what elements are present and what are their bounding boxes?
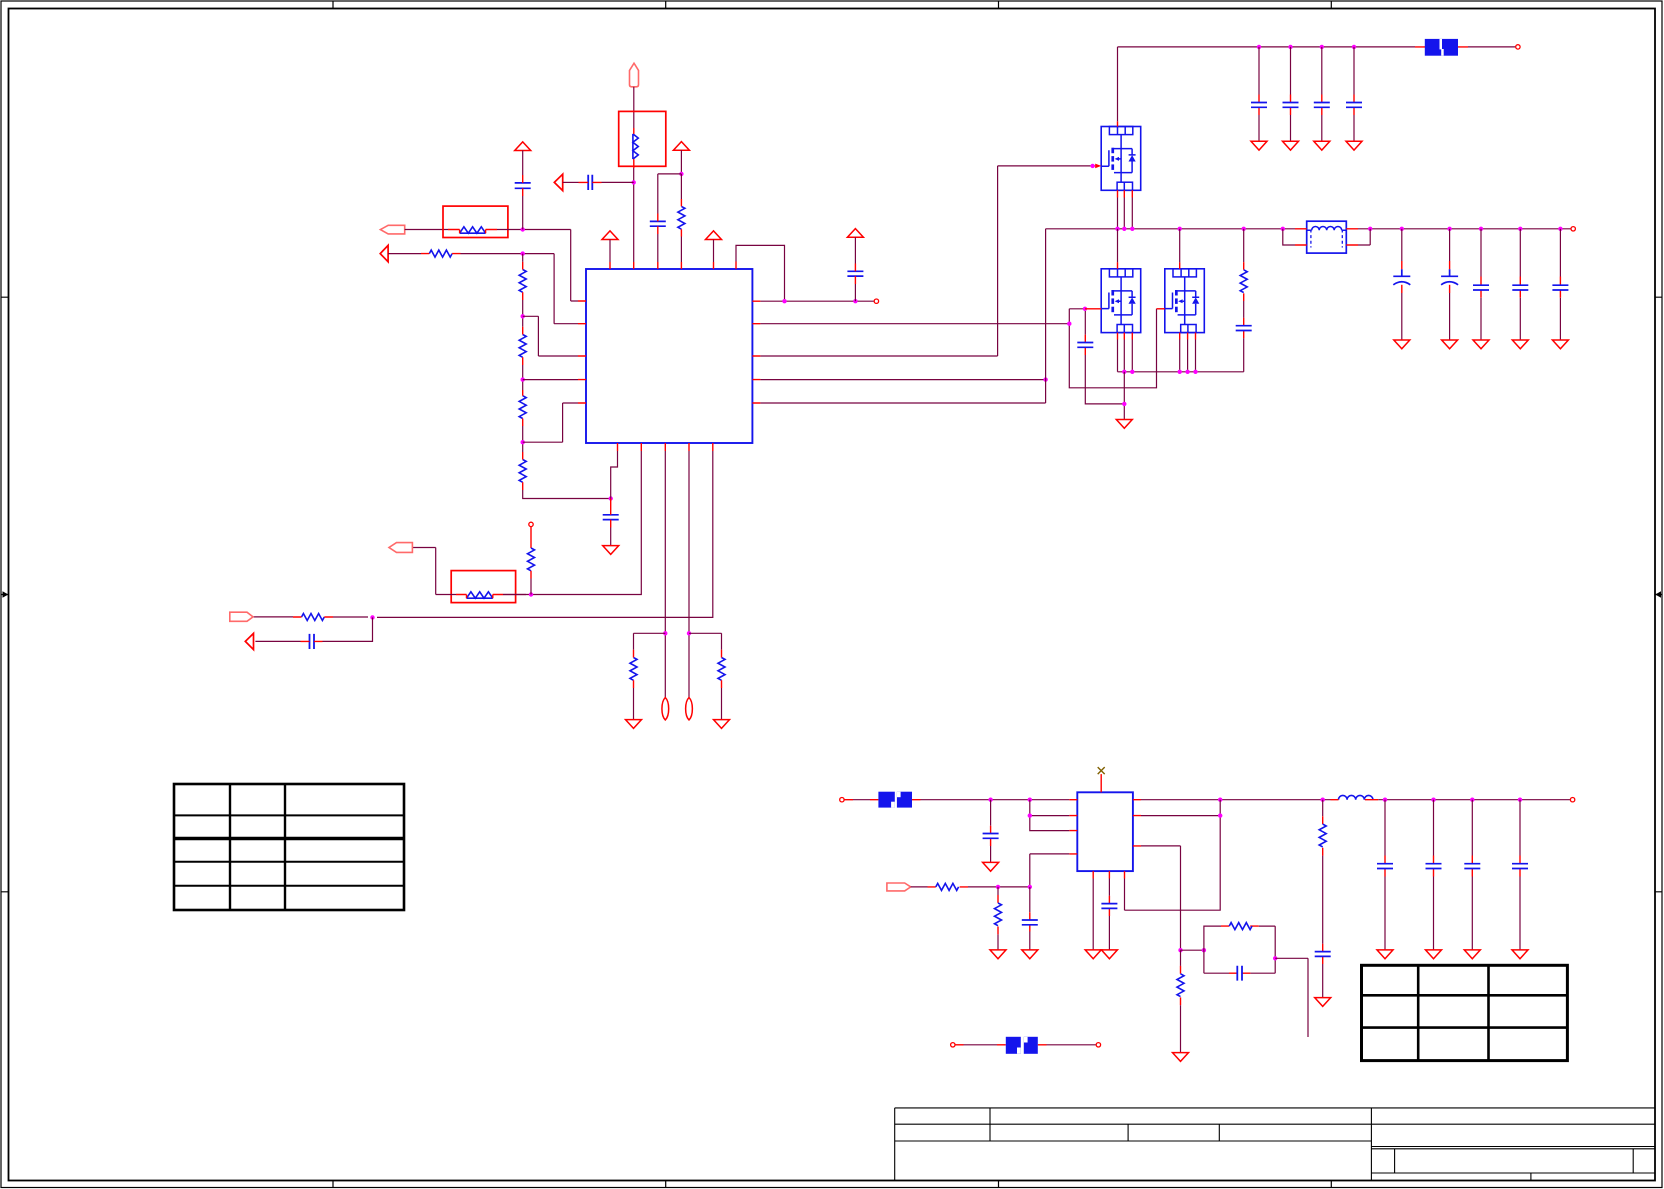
port arrow (wire2 left) — [380, 245, 388, 261]
node junction en cap — [1028, 885, 1032, 889]
capacitor bypass U2 — [1101, 879, 1117, 950]
capacitor C vin (x=990.6) — [983, 800, 999, 863]
node junction gate R2 — [1067, 322, 1071, 326]
stubs — [680, 199, 682, 237]
wire port to C — [563, 181, 579, 183]
wire ladder seg1 — [522, 254, 524, 327]
pin stubs U1 right — [752, 301, 760, 403]
pin stubs U1 top — [610, 262, 736, 270]
node junction b4 — [687, 631, 691, 635]
capacitor C (VIN 2) — [1283, 47, 1299, 141]
capacitor series (fb comp) — [310, 634, 315, 649]
open terminal netlabel left — [951, 1043, 955, 1047]
node junction x531 — [529, 592, 533, 596]
wire Q2 source to bus — [1118, 340, 1133, 372]
node junction fb in — [370, 615, 374, 619]
wire loop pin736 to right — [736, 245, 785, 301]
node junction wire1 — [521, 227, 525, 231]
wire sense pin R2 — [1125, 800, 1221, 911]
port flag (wire1 left) — [380, 225, 404, 234]
ground — [1394, 340, 1410, 349]
ground — [1464, 950, 1480, 959]
wire U2 gnd pin — [1092, 879, 1094, 950]
stub — [844, 799, 853, 801]
ground — [1512, 340, 1528, 349]
ground — [1085, 950, 1101, 959]
wire1 box to corner — [497, 230, 578, 302]
node junctions vout — [1218, 798, 1522, 802]
capacitor C (VIN 3) — [1314, 47, 1330, 141]
ground — [1442, 340, 1458, 349]
stubs Q2 source — [1118, 333, 1133, 340]
wire box to junction and left riser — [412, 548, 526, 595]
ground — [1283, 141, 1299, 150]
node junction cap node — [609, 496, 613, 500]
wire vcc to pin — [609, 240, 611, 263]
capacitor C out4 — [1512, 229, 1528, 340]
capacitor C vout3 — [1464, 800, 1480, 950]
resistor EN series — [928, 883, 969, 890]
terminal pin oval (x=689) — [686, 698, 693, 721]
wire FB pin R3 — [1141, 846, 1181, 950]
inductor L1 box — [1307, 221, 1347, 253]
capacitor C vout4 — [1512, 800, 1528, 950]
wire r to pin — [680, 174, 682, 262]
ground — [983, 862, 999, 871]
component box R (wire1) — [443, 206, 508, 237]
capacitor gate (x=1085.6) — [1077, 311, 1124, 404]
component box R (pwm adj) — [451, 571, 515, 603]
node junction R4 — [1043, 377, 1047, 381]
wire vin to pins 2 3 — [1030, 800, 1070, 831]
resistor ladder R3 — [519, 396, 526, 419]
port arrow (fb comp) — [245, 633, 253, 649]
transistor Q2 package — [1101, 269, 1141, 333]
power VCC arrow (pin 610) — [602, 231, 618, 240]
open terminal (x=531) — [529, 522, 533, 526]
wire en flag to resistor — [911, 886, 928, 888]
port flag (pwm) — [389, 543, 412, 553]
wire en net — [968, 886, 1030, 888]
wire L1 bypass — [1283, 229, 1370, 245]
wire U1 pin R3 gate drive high — [760, 166, 1090, 356]
wire terminal to label — [853, 799, 870, 801]
stubs FB1 — [633, 128, 635, 168]
wire vcc to pin — [713, 240, 715, 263]
node junction RC right — [1273, 956, 1277, 960]
stubs — [522, 175, 524, 196]
stubs Q3 source — [1180, 333, 1196, 340]
stub — [955, 1044, 964, 1046]
wire Q1 drain to VIN rail — [1117, 47, 1119, 121]
ground — [990, 950, 1006, 959]
no-connect X — [1098, 767, 1105, 774]
capacitor (x=657.8) — [650, 221, 666, 226]
terminal pin oval (x=665.3) — [662, 698, 669, 721]
notes table — [1362, 965, 1568, 1060]
gate entry arrow Q1 — [1095, 164, 1101, 169]
capacitor C (series at top) — [588, 175, 592, 190]
wire FB1 to U1 pin — [633, 168, 635, 262]
resistor RC top — [1221, 923, 1259, 930]
stubs — [456, 595, 503, 599]
wire Q2 drain from SW — [1117, 229, 1119, 269]
open terminal SW out — [1571, 227, 1575, 231]
ground power stage — [1116, 420, 1132, 429]
RC network loop — [1204, 926, 1275, 973]
resistor (fb wire) — [302, 614, 325, 621]
ground — [1473, 340, 1489, 349]
node junction vin cap — [988, 798, 992, 802]
wire RC tap — [1275, 958, 1308, 1037]
capacitor C vout1 — [1377, 800, 1393, 950]
ground — [1552, 340, 1568, 349]
stub — [530, 571, 532, 579]
capacitor snubber — [1236, 301, 1252, 372]
wire U1 pin R4 — [760, 379, 1045, 381]
wire branch to pin L5 — [523, 403, 578, 442]
stubs cap — [579, 181, 602, 183]
stubs — [421, 253, 461, 255]
node junction ladder a — [521, 314, 525, 318]
stub nc — [1100, 774, 1102, 784]
wire branch right — [689, 633, 722, 650]
stubs — [610, 499, 612, 528]
resistor sawtooth (wire1) — [460, 227, 486, 233]
node junctions SW bus — [1115, 227, 1562, 231]
stubs — [301, 640, 323, 642]
wire source bus — [1118, 371, 1244, 373]
wire ladder seg2 — [522, 365, 524, 390]
ground — [1173, 1053, 1189, 1062]
wire branch to pin L3 — [523, 316, 578, 356]
wire r to gnd — [721, 688, 723, 720]
resistor (x=681.4) — [678, 206, 685, 229]
node junction gnd — [1122, 402, 1126, 406]
wire vcc down — [854, 237, 856, 263]
wire U1 pin B4 down — [688, 451, 690, 698]
open terminal vout — [1570, 798, 1574, 802]
stub terminal — [530, 527, 532, 548]
node junction RC left — [1202, 948, 1206, 952]
resistor ladder R2 — [519, 335, 526, 358]
resistor snubber — [1240, 229, 1247, 301]
ground (x=721.5) — [714, 720, 730, 729]
node junction gate cap — [1083, 307, 1087, 311]
wire VIN rail top — [1118, 46, 1416, 48]
stubs — [522, 327, 524, 365]
wire gate link Q2 Q3 — [1069, 309, 1156, 388]
wire ladder seg3 — [522, 426, 524, 452]
port flag (fb input) — [230, 612, 253, 621]
stubs Q1 source — [1118, 190, 1133, 197]
ground — [1315, 998, 1331, 1007]
capacitor (x=610.7) — [603, 515, 619, 520]
node junction loop — [782, 299, 786, 303]
node junction on VDD line — [632, 180, 636, 184]
wire ladder bottom to cap node — [523, 490, 611, 499]
stubs — [854, 264, 856, 285]
node junction ladder b — [521, 377, 525, 381]
resistor (wire2) — [429, 250, 452, 257]
wire cap to port arrow — [255, 640, 300, 642]
stubs — [657, 214, 659, 235]
stub label — [870, 799, 921, 801]
wire U1 pin B3 down — [664, 451, 666, 698]
wire U1 pin B5 long feedback — [377, 451, 713, 617]
ground (x=610.7) — [603, 546, 619, 555]
revision table — [174, 784, 404, 910]
stubs — [633, 650, 635, 688]
open terminal netlabel right — [1096, 1043, 1100, 1047]
stubs L2 — [1331, 799, 1379, 801]
node junction sw fb — [1218, 813, 1222, 817]
wire r to gnd — [633, 688, 635, 720]
port flag EN — [887, 883, 911, 891]
wire U1 pin R1 to terminal — [760, 300, 874, 302]
stub gate Q2 — [1085, 308, 1101, 310]
wire label to terminal — [1468, 46, 1516, 48]
pin stubs U1 bottom — [618, 443, 713, 451]
transistor Q3 package — [1165, 269, 1205, 333]
wire Q1 source to SW bus — [1118, 198, 1133, 229]
wire junction down to cap branch — [323, 617, 373, 641]
node junction ladder c — [521, 440, 525, 444]
node junctions source bus — [1122, 370, 1198, 374]
stub gate Q3 — [1157, 308, 1165, 310]
stubs — [522, 452, 524, 490]
wire U1 pin B1 jog to cap node — [611, 451, 618, 499]
open terminal VIN2 — [840, 798, 844, 802]
wire resistor to junction — [530, 579, 532, 595]
capacitor CP1 polarized — [1393, 229, 1410, 340]
capacitor CP2 polarized — [1441, 229, 1458, 340]
wire label to terminal — [1047, 1044, 1097, 1046]
wire vcc to junction — [680, 150, 682, 174]
capacitor C out5 — [1552, 229, 1568, 340]
wire resistor to port — [253, 616, 368, 618]
power VCC arrow (pin 713.5) — [706, 231, 722, 240]
wire cap to junction — [602, 181, 634, 183]
power pin VDD flag — [630, 63, 639, 87]
wire Q3 drain from SW — [1179, 229, 1181, 269]
component box FB1 — [619, 111, 666, 166]
stubs — [522, 390, 524, 426]
net label 5V — [1006, 1037, 1038, 1054]
resistor (x=721.5) — [718, 658, 725, 681]
wire branch to pin L4 — [523, 379, 578, 381]
wire2 to resistor — [388, 253, 421, 255]
capacitor C vout2 — [1426, 800, 1442, 950]
stubs L1 — [1295, 229, 1358, 245]
wire cap to wire1 — [522, 196, 524, 230]
stubs — [448, 230, 497, 234]
node junction en divider — [996, 885, 1000, 889]
net label 12V in — [878, 792, 912, 808]
pin stubs U2 — [1069, 785, 1141, 879]
resistor (x=633.5) — [630, 658, 637, 681]
wire label to U2 — [921, 799, 1070, 801]
stubs — [293, 616, 333, 618]
inductor L2 — [1339, 795, 1373, 799]
stub drain Q1 — [1117, 121, 1119, 126]
stub gate Q1 — [1090, 165, 1095, 167]
pin stubs U1 left — [578, 301, 586, 403]
output filter branch (x=1322.7) — [1315, 800, 1331, 998]
ground — [1346, 141, 1362, 150]
wire to label — [964, 1044, 998, 1046]
open terminal VIN — [1516, 45, 1520, 49]
resistor FB lower — [1177, 950, 1184, 1052]
wire U1 pin R2 gate drive low — [760, 323, 1069, 325]
wire EN pin4 — [1030, 854, 1070, 887]
ground — [1426, 950, 1442, 959]
port arrow left (cap branch) — [554, 174, 562, 190]
capacitor C (VIN 4) — [1346, 47, 1362, 141]
wire cap to gnd — [610, 528, 612, 546]
power VCC arrow (x=522.7) — [515, 142, 531, 151]
wire cap to R1 — [854, 284, 856, 301]
ground — [1314, 141, 1330, 150]
power VCC arrow (x=681) — [673, 142, 689, 151]
wire FB to RC network — [1181, 949, 1204, 951]
title block — [895, 1108, 1655, 1181]
capacitor EN — [1022, 887, 1038, 950]
wire U1 pin B2 down-left — [503, 451, 641, 595]
node junction b3 — [663, 631, 667, 635]
wire U1 pin R5 to SW riser — [760, 229, 1045, 403]
capacitor (x=855.4) — [847, 271, 863, 276]
ground — [1512, 950, 1528, 959]
wire2 to corner and pin — [461, 254, 579, 324]
wire source bus to ground — [1123, 372, 1125, 420]
wire junction to cap branch — [658, 174, 682, 214]
wire vcc down — [522, 151, 524, 176]
net label 12V — [1425, 39, 1458, 56]
wire cap to pin — [657, 234, 659, 262]
capacitor C out3 — [1473, 229, 1489, 340]
power VCC arrow (x=855.4) — [847, 229, 863, 238]
node junction vin pins — [1028, 798, 1032, 802]
node junction x=681 — [679, 172, 683, 176]
ground — [1251, 141, 1267, 150]
transistor Q1 package — [1101, 127, 1141, 191]
resistor sawtooth (pwm adj) — [467, 592, 493, 598]
capacitor C (VIN 1) — [1251, 47, 1267, 141]
node junction wire2 — [521, 251, 525, 255]
node junctions VIN rail — [1257, 45, 1356, 49]
wire branch left — [634, 633, 666, 650]
node junction gate Q1 — [1090, 164, 1094, 168]
ground (x=633.5) — [626, 720, 642, 729]
resistor EN pulldown — [995, 887, 1002, 950]
resistor (x=531) — [528, 548, 535, 571]
inductor FB1 element — [633, 134, 638, 159]
op-amp U1 controller IC — [586, 269, 752, 443]
op-amp U2 regulator IC — [1077, 792, 1133, 871]
wire1 flag to box — [405, 229, 448, 231]
ground — [1101, 950, 1117, 959]
capacitor RC bottom — [1229, 966, 1250, 981]
wire Q3 source to bus — [1180, 340, 1196, 372]
ground — [1377, 950, 1393, 959]
capacitor (x=522.7) — [515, 183, 531, 188]
stubs — [721, 650, 723, 688]
open terminal R1 — [874, 299, 878, 303]
stubs — [522, 262, 524, 300]
node junction vcc cap — [853, 299, 857, 303]
wire VOUT rail — [1141, 799, 1570, 801]
stub label — [997, 1044, 1047, 1046]
resistor ladder R4 — [519, 460, 526, 483]
node junction FB — [1178, 948, 1182, 952]
stub label — [1415, 46, 1468, 48]
ground — [1022, 950, 1038, 959]
wire SW bus — [1046, 228, 1571, 230]
resistor ladder R1 — [519, 270, 526, 293]
wire VDD to inductor box — [633, 87, 635, 128]
node junction pin2 — [1028, 813, 1032, 817]
